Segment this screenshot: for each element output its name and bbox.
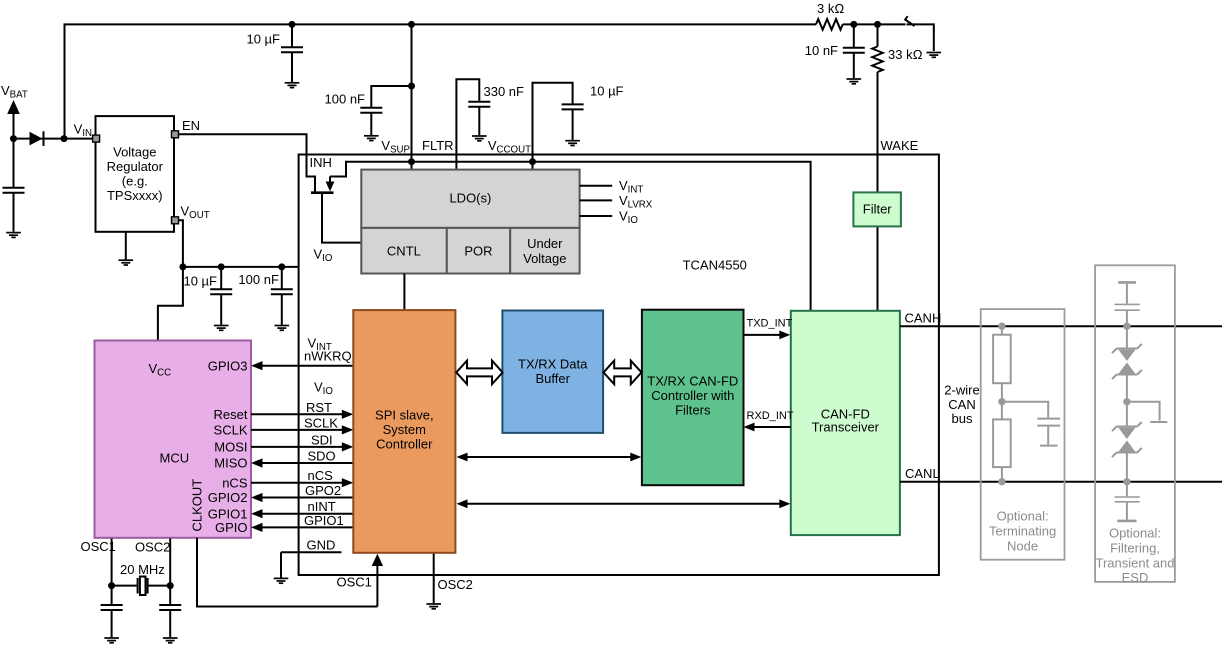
VBAT up arrow symbol — [13, 113, 15, 139]
resistor RT1 — [993, 335, 1011, 384]
wire INH net to transceiver — [330, 162, 811, 311]
MCU block — [95, 341, 252, 538]
wire CANH — [900, 325, 1222, 327]
svg-text:bus: bus — [952, 411, 973, 426]
capacitor 10uF at VIO rail — [220, 267, 222, 289]
wire VBAT to VIN — [14, 138, 93, 140]
svg-text:VIO: VIO — [314, 247, 333, 265]
capacitor 10uF at top rail — [291, 24, 293, 47]
wire VCCOUT with 10uF capacitor — [533, 83, 573, 170]
wire top supply rail from VBAT node to 3k resistor — [65, 24, 817, 138]
svg-text:nINT: nINT — [308, 499, 336, 514]
resistor R2 33k — [872, 47, 883, 72]
SPI slave system controller block — [353, 310, 455, 553]
wire terminating divider — [1001, 326, 1003, 482]
svg-text:MISO: MISO — [214, 456, 247, 471]
filter block — [853, 192, 901, 226]
svg-text:VCCOUT: VCCOUT — [488, 138, 531, 156]
svg-text:SDO: SDO — [308, 449, 336, 464]
svg-text:POR: POR — [464, 244, 492, 259]
wire GPIO2 to GPO2 — [262, 497, 353, 499]
svg-text:2-wire: 2-wire — [944, 383, 979, 398]
svg-text:TXD_INT: TXD_INT — [747, 318, 793, 330]
svg-text:OSC2: OSC2 — [438, 577, 473, 592]
wire VCC to MCU — [158, 267, 183, 341]
svg-text:CNTL: CNTL — [387, 244, 421, 259]
pin VIO stub — [580, 215, 613, 217]
wire OSC2 to ground — [433, 553, 435, 603]
svg-text:TX/RX CAN-FD: TX/RX CAN-FD — [647, 374, 738, 389]
svg-text:System: System — [383, 422, 426, 437]
wire VIO rail — [183, 266, 299, 268]
wire TXD_INT — [744, 334, 781, 336]
resistor R1 3k — [816, 19, 843, 30]
svg-text:Optional:: Optional: — [1109, 526, 1161, 541]
wire SCLK — [251, 429, 343, 431]
svg-text:GPIO3: GPIO3 — [208, 358, 248, 373]
wire rail to switch — [843, 23, 906, 25]
svg-text:20 MHz: 20 MHz — [120, 562, 165, 577]
svg-text:Transient and: Transient and — [1095, 556, 1174, 571]
svg-text:10 µF: 10 µF — [246, 32, 280, 47]
junction VBAT node — [10, 135, 17, 142]
junction CANH terminating — [998, 323, 1005, 330]
svg-text:Filter: Filter — [863, 202, 893, 217]
wire WAKE vertical — [877, 24, 879, 310]
junction CANL filter — [1123, 478, 1130, 485]
svg-text:Controller: Controller — [376, 437, 433, 452]
svg-text:VIN: VIN — [74, 122, 92, 140]
wire CLKOUT to OSC1 — [197, 538, 377, 607]
pin VIN terminal — [93, 135, 100, 142]
svg-text:VSUP: VSUP — [381, 138, 410, 156]
svg-text:TPSxxxx): TPSxxxx) — [107, 188, 163, 203]
wire GND — [281, 551, 342, 553]
junction 10nF tap — [850, 21, 857, 28]
svg-text:10 µF: 10 µF — [183, 274, 217, 289]
resistor RT2 — [993, 419, 1011, 467]
voltage regulator U1 box — [96, 116, 175, 232]
wire EN to gate of INH transistor — [178, 134, 315, 191]
svg-text:330 nF: 330 nF — [484, 84, 525, 99]
svg-text:VIO: VIO — [314, 380, 333, 398]
svg-text:Transceiver: Transceiver — [812, 419, 880, 434]
capacitor filter bottom — [1126, 482, 1128, 496]
wire GPIO1 to nINT — [262, 513, 353, 515]
capacitor 100nF at VSUP — [371, 86, 411, 108]
svg-text:10 nF: 10 nF — [805, 43, 838, 58]
ground at switch — [927, 53, 942, 58]
svg-text:nWKRQ: nWKRQ — [304, 349, 352, 364]
double arrow SPI-controller — [466, 456, 632, 458]
svg-text:10 µF: 10 µF — [590, 84, 624, 99]
svg-text:TCAN4550: TCAN4550 — [683, 258, 747, 273]
CAN-FD transceiver block — [791, 311, 900, 535]
junction divider mid — [998, 398, 1005, 405]
junction TVS mid with stub — [1123, 398, 1130, 405]
pin EN terminal — [172, 131, 179, 138]
wire RXD_INT — [754, 426, 791, 428]
svg-text:100 nF: 100 nF — [325, 92, 366, 107]
TCAN4550 outer box — [299, 155, 939, 576]
svg-text:INH: INH — [310, 155, 332, 170]
svg-text:ESD: ESD — [1122, 570, 1149, 585]
junction 33k tap — [874, 21, 881, 28]
svg-text:Controller with: Controller with — [651, 388, 734, 403]
capacitor filter top — [1118, 281, 1136, 284]
wire GPIO to GPIO1 — [262, 526, 353, 528]
svg-text:OSC1: OSC1 — [81, 539, 116, 554]
pin VLVRX stub — [580, 199, 613, 201]
svg-text:nCS: nCS — [308, 468, 334, 483]
svg-text:Voltage: Voltage — [113, 144, 156, 159]
svg-text:CAN: CAN — [948, 397, 975, 412]
svg-text:nCS: nCS — [222, 475, 248, 490]
ground at regulator — [125, 232, 127, 260]
junction VCCOUT at INH wire — [529, 158, 536, 165]
svg-text:Optional:: Optional: — [997, 509, 1049, 524]
svg-text:VIO: VIO — [619, 209, 638, 227]
POR block — [447, 228, 510, 274]
LDO block U2 — [361, 170, 579, 228]
TVS diode top — [1126, 326, 1128, 348]
wire MOSI to SDI — [251, 446, 343, 448]
svg-text:SPI slave,: SPI slave, — [375, 408, 434, 423]
capacitor at VBAT — [13, 139, 15, 188]
svg-text:OSC2: OSC2 — [135, 540, 170, 555]
svg-text:MCU: MCU — [160, 451, 190, 466]
ground at GND pin — [280, 552, 282, 577]
svg-text:GPO2: GPO2 — [305, 483, 341, 498]
optional filtering ESD box — [1095, 265, 1175, 582]
hollow double arrow SPI-buffer — [456, 361, 502, 385]
svg-text:Filters: Filters — [675, 403, 711, 418]
svg-text:VBAT: VBAT — [1, 83, 28, 101]
double arrow SPI-transceiver — [466, 503, 781, 505]
svg-text:GPIO2: GPIO2 — [208, 490, 248, 505]
svg-text:SCLK: SCLK — [214, 423, 248, 438]
svg-text:EN: EN — [182, 118, 200, 133]
pin VINT stub — [580, 185, 613, 187]
svg-text:VOUT: VOUT — [181, 204, 210, 222]
capacitor CT split termination — [1002, 402, 1060, 446]
junction VOUT rail — [179, 263, 186, 270]
svg-text:33 kΩ: 33 kΩ — [888, 47, 923, 62]
CNTL block — [361, 228, 447, 274]
diode D1 — [30, 132, 43, 146]
transistor INH driver — [329, 177, 331, 182]
svg-text:Buffer: Buffer — [535, 371, 570, 386]
svg-text:(e.g.: (e.g. — [122, 173, 148, 188]
svg-text:GPIO1: GPIO1 — [304, 513, 344, 528]
junction VSUP at INH wire — [408, 158, 415, 165]
wire nWKRQ to GPIO3 — [262, 365, 353, 367]
svg-text:LDO(s): LDO(s) — [449, 191, 491, 206]
svg-text:TX/RX Data: TX/RX Data — [518, 357, 588, 372]
capacitor 10nF — [853, 24, 855, 47]
svg-text:MOSI: MOSI — [214, 440, 247, 455]
wire VOUT down to VIO rail — [179, 220, 183, 267]
svg-text:FLTR: FLTR — [422, 138, 454, 153]
wire nCS — [251, 482, 343, 484]
hollow double arrow buffer-controller — [604, 361, 642, 385]
svg-text:CANH: CANH — [905, 311, 942, 326]
junction CANL terminating — [998, 478, 1005, 485]
junction CANH filter — [1123, 323, 1130, 330]
TX/RX data buffer block — [502, 311, 603, 433]
svg-text:GPIO: GPIO — [215, 520, 248, 535]
capacitor at OSC2 — [159, 605, 181, 610]
svg-text:Node: Node — [1007, 539, 1038, 554]
crystal X1 20MHz — [111, 539, 113, 605]
ground at VBAT cap — [6, 233, 21, 238]
svg-text:Regulator: Regulator — [107, 159, 164, 174]
svg-text:RXD_INT: RXD_INT — [747, 410, 794, 422]
switch S1 — [905, 16, 914, 26]
svg-text:Under: Under — [527, 236, 563, 251]
wire VSUP vertical — [411, 24, 413, 169]
pin VOUT terminal — [172, 217, 179, 224]
TVS diode bottom — [1126, 402, 1128, 426]
svg-text:WAKE: WAKE — [881, 138, 919, 153]
wire CANL — [900, 481, 1222, 483]
svg-text:Filtering,: Filtering, — [1110, 541, 1160, 556]
svg-text:CANL: CANL — [905, 466, 940, 481]
under voltage block — [510, 228, 579, 274]
svg-text:RST: RST — [306, 400, 332, 415]
junction rail drop at VIN — [61, 135, 68, 142]
svg-text:CLKOUT: CLKOUT — [190, 479, 205, 532]
TX/RX CAN-FD controller block — [642, 310, 744, 486]
svg-text:GND: GND — [307, 538, 336, 553]
wire FLTR with 330nF capacitor — [456, 79, 479, 169]
wire CNTL to SPI controller — [403, 274, 405, 310]
svg-text:3 kΩ: 3 kΩ — [817, 1, 844, 16]
wire MISO to SDO — [262, 462, 353, 464]
svg-text:100 nF: 100 nF — [238, 272, 279, 287]
capacitor at OSC1 — [101, 605, 123, 610]
svg-text:Terminating: Terminating — [989, 524, 1056, 539]
svg-text:Reset: Reset — [214, 407, 248, 422]
wire Reset to RST — [251, 413, 343, 415]
capacitor 100nF at VIO rail — [281, 267, 283, 289]
optional terminating node box — [981, 309, 1065, 560]
svg-text:OSC1: OSC1 — [337, 575, 372, 590]
svg-text:Voltage: Voltage — [523, 251, 566, 266]
svg-text:SCLK: SCLK — [304, 416, 338, 431]
svg-text:SDI: SDI — [311, 433, 333, 448]
